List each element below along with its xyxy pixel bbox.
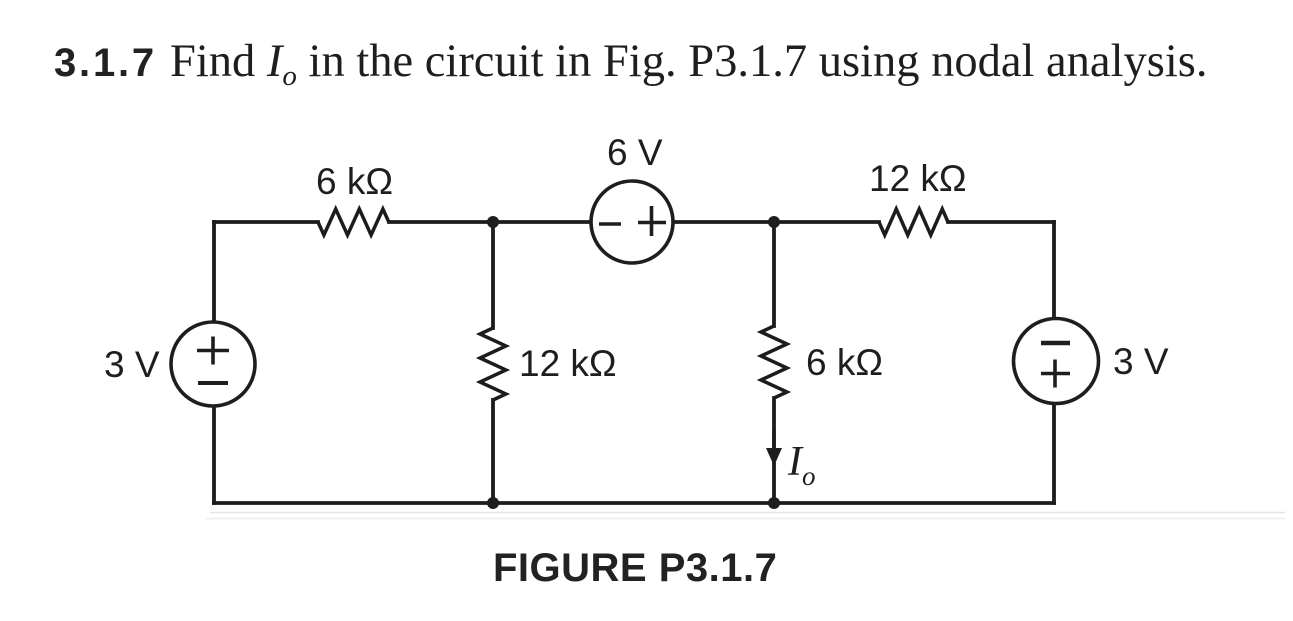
V3 minus sign xyxy=(1041,341,1070,346)
wire bottom rail xyxy=(214,501,1054,505)
wire node B vertical upper xyxy=(772,222,776,326)
voltage source V1 3V left circle xyxy=(171,322,255,406)
wire top middle-right segment xyxy=(673,220,879,224)
svg-text:6 kΩ: 6 kΩ xyxy=(316,161,393,202)
svg-text:3 V: 3 V xyxy=(104,344,160,385)
svg-text:FIGURE P3.1.7: FIGURE P3.1.7 xyxy=(493,546,777,590)
wire node B vertical lower xyxy=(772,398,776,503)
resistor R4 12k top-right zigzag xyxy=(879,209,948,235)
svg-text:Find Io in the circuit in Fig.: Find Io in the circuit in Fig. P3.1.7 us… xyxy=(170,36,1207,92)
wire left vertical lower xyxy=(212,406,216,503)
voltage source V2 6V top circle xyxy=(591,181,673,263)
wire left vertical upper xyxy=(212,222,216,322)
node A top junction dot xyxy=(487,216,499,228)
wire right vertical lower xyxy=(1052,404,1056,503)
wire node A vertical upper xyxy=(491,222,495,328)
resistor R2 12k middle-left vertical zigzag xyxy=(480,328,506,400)
node A bottom junction dot xyxy=(487,497,499,509)
scan artifact line 2 xyxy=(205,518,1285,520)
svg-text:3.1.7: 3.1.7 xyxy=(54,41,157,85)
wire top right segment xyxy=(948,220,1054,224)
node B top junction dot xyxy=(768,216,780,228)
V3 plus sign xyxy=(1041,360,1070,388)
svg-text:3 V: 3 V xyxy=(1113,341,1169,382)
current Io arrow xyxy=(772,430,776,450)
wire right vertical upper xyxy=(1052,222,1056,318)
svg-text:12 kΩ: 12 kΩ xyxy=(869,158,967,199)
svg-text:6 V: 6 V xyxy=(607,132,663,173)
svg-text:Io: Io xyxy=(787,439,816,491)
svg-text:12 kΩ: 12 kΩ xyxy=(519,343,617,384)
wire top-left segment xyxy=(214,220,318,224)
node B bottom junction dot xyxy=(768,497,780,509)
wire top middle-left segment xyxy=(389,220,591,224)
V1 minus sign xyxy=(198,381,228,385)
voltage source V3 3V right circle xyxy=(1014,319,1099,404)
scan artifact line 1 xyxy=(210,512,1285,514)
svg-text:6 kΩ: 6 kΩ xyxy=(806,342,883,383)
V1 plus sign xyxy=(197,337,229,365)
resistor R3 6k middle-right vertical zigzag xyxy=(761,326,787,398)
V2 plus sign xyxy=(638,206,666,236)
resistor R1 6k top-left zigzag xyxy=(318,209,389,235)
wire node A vertical lower xyxy=(491,400,495,503)
V2 minus sign xyxy=(599,222,621,226)
